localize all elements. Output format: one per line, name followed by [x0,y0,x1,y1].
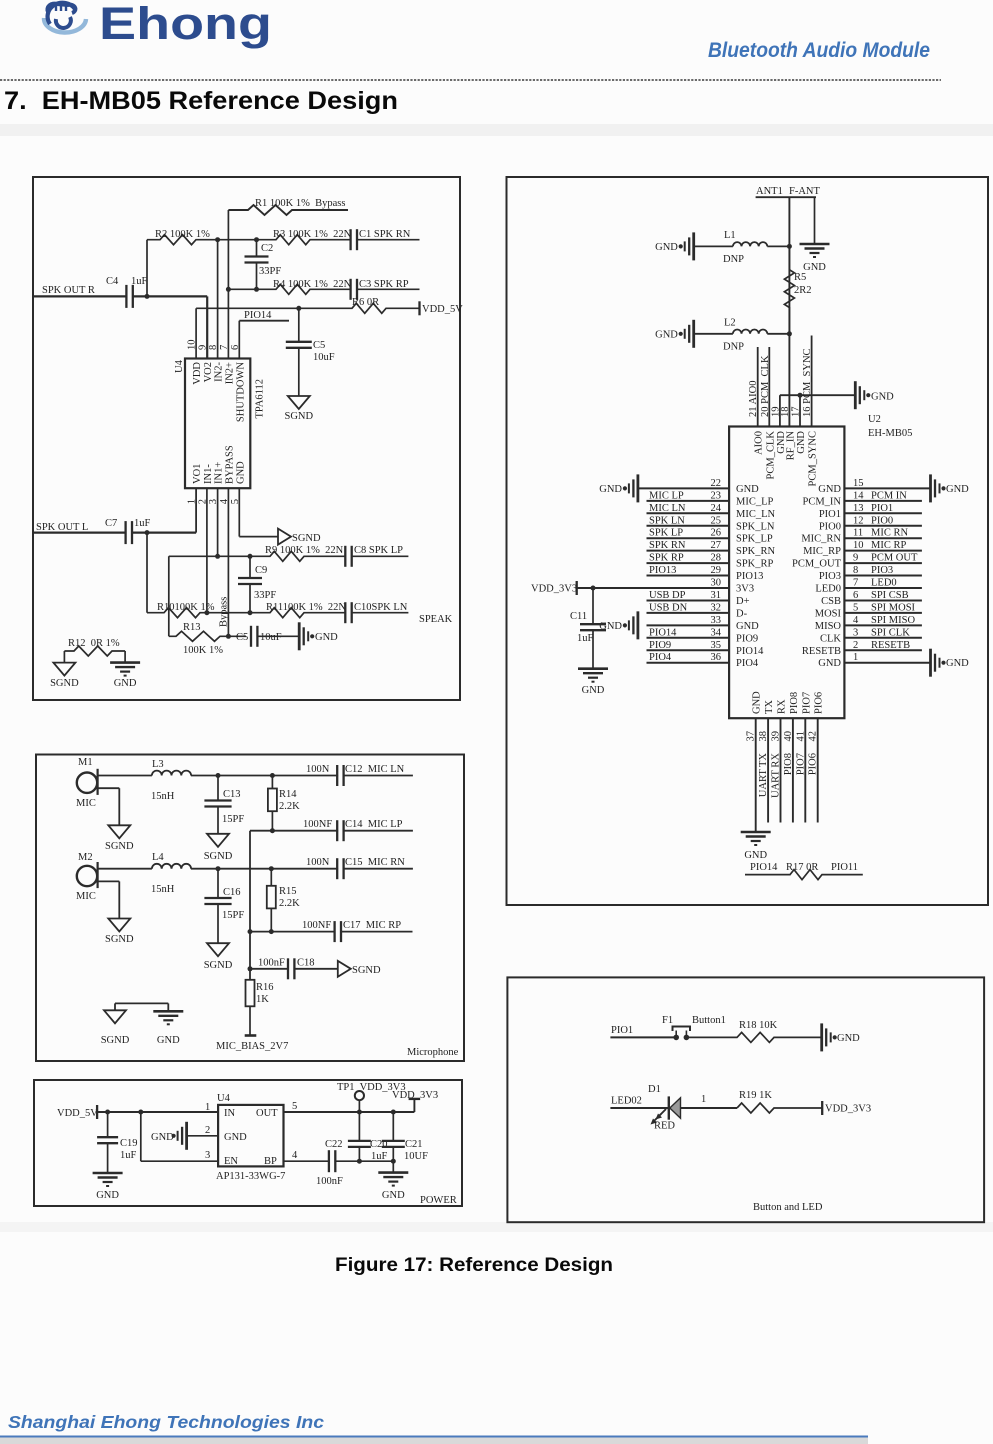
wire MIC_LP row [250,828,338,833]
ground SGND right of pin5 [278,529,321,545]
capacitor C17 MIC_RP [302,920,413,942]
svg-text:D+: D+ [736,596,750,607]
svg-text:M2: M2 [78,852,93,863]
svg-text:PIO4: PIO4 [649,652,672,663]
ground GND below C21 [378,1161,408,1201]
U2 left pin 25 net SPK LN [647,515,775,532]
svg-text:SPK_LN: SPK_LN [736,521,775,532]
svg-text:C14 MIC LP: C14 MIC LP [345,819,403,830]
svg-text:Button and LED: Button and LED [753,1202,823,1213]
svg-text:7. EH-MB05 Reference Design: 7. EH-MB05 Reference Design [4,87,398,115]
svg-text:GND: GND [96,1190,119,1201]
svg-text:100N: 100N [306,764,330,775]
wire IN2- pin8 vertical [215,237,220,358]
resistor R16 1K [246,980,274,1035]
svg-text:GND: GND [599,484,622,495]
svg-text:AIO0: AIO0 [754,431,765,455]
svg-text:C12 MIC LN: C12 MIC LN [345,764,405,775]
module schematic frame [507,177,989,905]
svg-text:ANT1: ANT1 [756,186,783,197]
svg-text:GND: GND [224,1132,247,1143]
svg-text:3: 3 [205,1150,210,1161]
svg-text:GND: GND [818,484,841,495]
ground GND bottom left [153,1011,183,1046]
wire SPK OUT L input [34,531,126,533]
Ehong logo icon [44,3,86,33]
svg-text:2.2K: 2.2K [279,801,300,812]
resistor R11 [207,602,347,618]
svg-text:PIO9: PIO9 [649,640,671,651]
svg-text:IN2-: IN2- [214,361,225,381]
svg-text:C16: C16 [223,887,241,898]
label POWER [420,1195,457,1206]
svg-text:U4: U4 [174,359,185,373]
resistor R12 [64,638,125,663]
wire LED02 to D1 [610,1107,668,1109]
svg-text:15nH: 15nH [151,884,175,895]
svg-text:LED0: LED0 [871,578,897,589]
svg-text:1uF: 1uF [577,633,594,644]
svg-text:Button1: Button1 [692,1015,726,1026]
svg-text:PIO13: PIO13 [649,565,676,576]
ground GND at U2 pin22 [599,474,638,502]
svg-text:1: 1 [701,1094,706,1105]
resistor R18 10K [686,1020,821,1042]
wire IN1- pin2 vertical [204,488,209,615]
svg-text:100NF: 100NF [302,920,331,931]
svg-text:9: 9 [853,553,858,564]
svg-text:GND: GND [736,621,759,632]
svg-text:L4: L4 [152,852,164,863]
power flag VDD_3V3 at pin30 [531,581,577,595]
svg-text:C9: C9 [255,565,267,576]
svg-text:OUT: OUT [256,1108,278,1119]
svg-text:PIO14: PIO14 [244,310,272,321]
U2 left pin 33 [647,615,760,632]
svg-text:SGND: SGND [105,841,134,852]
svg-text:DNP: DNP [723,342,744,353]
svg-text:3V3: 3V3 [736,584,754,595]
resistor R19 1K [737,1090,822,1113]
svg-text:U2: U2 [868,414,881,425]
wire D1 to R19 [681,1094,738,1108]
svg-text:PIO9: PIO9 [736,633,758,644]
U2 right pin 4 net SPI MISO [815,615,922,632]
svg-text:GND: GND [736,484,759,495]
svg-text:MIC: MIC [76,891,96,902]
svg-text:D-: D- [736,608,748,619]
U2 right pin 1 [818,652,930,669]
svg-text:GND: GND [157,1035,180,1046]
svg-text:GND: GND [382,1190,405,1201]
resistor R4 [228,279,351,294]
U2 right pin 2 net RESETB [802,640,922,657]
svg-text:GND: GND [151,1132,174,1143]
svg-text:SGND: SGND [204,851,233,862]
svg-text:C19: C19 [120,1138,138,1149]
inductor L1 [694,230,790,265]
Ehong logo text [99,0,272,49]
svg-text:Bluetooth Audio Module: Bluetooth Audio Module [708,38,930,62]
net stub PCM_CLK pin20 [760,347,771,427]
net stub PIO7 pin41 [795,718,806,822]
svg-text:5: 5 [292,1101,297,1112]
svg-text:13: 13 [853,503,864,514]
svg-text:R1 100K 1% Bypass: R1 100K 1% Bypass [255,198,345,209]
wire IN1+ pin3 vertical [215,488,220,559]
svg-text:RED: RED [654,1121,675,1132]
svg-text:MIC_LP: MIC_LP [736,496,774,507]
svg-text:R4 100K 1% 22N: R4 100K 1% 22N [273,279,352,290]
U2 left pin 36 net PIO4 [647,652,759,669]
label SPK OUT L [36,522,88,533]
svg-text:R16: R16 [256,982,274,993]
svg-text:PIO14: PIO14 [649,627,677,638]
svg-text:Microphone: Microphone [407,1047,459,1058]
svg-text:PIO1: PIO1 [819,509,841,520]
svg-text:6: 6 [853,590,858,601]
ground GND at U2 pin1 [931,649,970,677]
svg-text:IN1+: IN1+ [214,462,225,484]
capacitor C9 [238,554,276,615]
svg-text:GND: GND [582,685,605,696]
svg-text:GND: GND [871,392,894,403]
svg-text:34: 34 [711,627,722,638]
ground GND right of pin19 rail [855,381,894,409]
svg-text:BP: BP [264,1156,277,1167]
svg-text:CSB: CSB [821,596,841,607]
test point TP1 [337,1082,406,1112]
svg-text:7: 7 [853,578,858,589]
wire GND pin5 to SGND [239,488,278,536]
capacitor C13 15PF [204,776,244,834]
U2 left pin 34 net PIO14 [647,627,759,644]
svg-text:27: 27 [711,540,722,551]
svg-text:GND: GND [796,431,807,454]
resistor R5 2R2 [784,246,811,333]
svg-text:33PF: 33PF [259,266,281,277]
svg-text:USB DN: USB DN [649,602,688,613]
capacitor C14 MIC_LP [303,819,413,841]
svg-text:PIO0: PIO0 [871,515,893,526]
svg-text:1K: 1K [256,994,269,1005]
svg-text:2.2K: 2.2K [279,898,300,909]
U2 bottom pin numbers [746,731,819,742]
wire C3 to SPK RP [357,288,420,290]
svg-text:1uF: 1uF [131,276,148,287]
U2 left pin 24 net MIC LN [647,503,776,520]
wire M2 ground leg [98,881,120,918]
capacitor C22 100nF [316,1139,343,1187]
svg-text:MIC_LN: MIC_LN [736,509,776,520]
ground GND at pin2 [151,1122,187,1150]
LED D1 RED [648,1084,681,1132]
svg-text:PIO4: PIO4 [736,658,759,669]
header dashed rule [0,79,941,81]
regulator U4 AP131 body [216,1093,285,1182]
svg-text:100N: 100N [306,857,330,868]
wire pin2 GND [187,1125,219,1136]
svg-text:POWER: POWER [420,1195,457,1206]
capacitor C15 MIC_RN [306,857,413,879]
pin17 GND wire [791,393,803,427]
U2 left pin 32 net USB DN [647,602,748,619]
U4 pin numbers bottom [187,498,241,504]
svg-text:15: 15 [853,478,864,489]
ground GND left of L1 [655,232,694,260]
svg-text:100nF: 100nF [316,1176,343,1187]
svg-text:PCM OUT: PCM OUT [871,553,918,564]
capacitor C12 MIC_LN [306,764,413,786]
svg-text:VDD_3V3: VDD_3V3 [392,1090,438,1101]
svg-text:26: 26 [711,528,722,539]
svg-text:IN: IN [224,1108,235,1119]
svg-text:TPA6112: TPA6112 [255,379,266,418]
wire SGND-GND tie [115,1003,168,1011]
wire BP pin4 through C22 [284,1150,329,1161]
wire L4 to C15 row [191,866,338,871]
capacitor C16 15PF [204,869,244,944]
svg-text:VDD: VDD [192,362,203,385]
U2 left pin 30 [577,578,754,595]
svg-text:MIC RP: MIC RP [871,540,906,551]
svg-text:SHUTDOWN: SHUTDOWN [235,362,246,422]
button schematic frame [507,977,984,1222]
wire antenna down to RF_IN [787,197,792,426]
svg-text:PIO1: PIO1 [611,1025,633,1036]
capacitor C20 1uF [348,1112,388,1162]
svg-text:PIO3: PIO3 [871,565,893,576]
wire R9 branch down to R13 [168,556,170,636]
wire C8 to SPK LP [352,555,409,557]
ground GND below U2 [741,832,771,861]
svg-text:R10100K 1%: R10100K 1% [157,602,215,613]
svg-text:C1 SPK RN: C1 SPK RN [359,229,411,240]
svg-text:PIO1: PIO1 [871,503,893,514]
svg-text:SGND: SGND [285,411,314,422]
resistor R6 [348,297,420,313]
footer company name [8,1412,324,1432]
label Microphone [407,1047,459,1058]
svg-text:PIO8: PIO8 [783,753,794,775]
svg-text:R19 1K: R19 1K [739,1090,772,1101]
U4 pin numbers top [187,340,241,351]
svg-text:VO2: VO2 [203,362,214,382]
U2 right pin 12 net PIO0 [819,515,922,532]
svg-text:10UF: 10UF [404,1151,428,1162]
svg-text:SPI CLK: SPI CLK [871,627,910,638]
svg-text:SGND: SGND [105,934,134,945]
pushbutton F1 Button1 [662,1015,726,1040]
capacitor C11 [570,586,606,669]
svg-text:SPK LP: SPK LP [649,528,683,539]
svg-text:C11: C11 [570,611,587,622]
svg-text:MISO: MISO [815,621,842,632]
svg-text:SPK_RN: SPK_RN [736,546,776,557]
resistor R3 [218,229,352,245]
net stub PCM_SYNC pin16 [802,336,813,427]
net PIO1 [611,1025,633,1036]
svg-text:R12 0R 1%: R12 0R 1% [68,638,120,649]
svg-text:R3 100K 1% 22N: R3 100K 1% 22N [273,229,352,240]
svg-text:SGND: SGND [204,960,233,971]
svg-text:20 PCM_CLK: 20 PCM_CLK [760,355,771,417]
svg-text:USB DP: USB DP [649,590,686,601]
power flag VDD_5V input [57,1105,98,1119]
svg-text:EH-MB05: EH-MB05 [868,428,912,439]
svg-text:SPK RN: SPK RN [649,540,686,551]
label Button and LED [753,1202,823,1213]
wire EN tie to input [141,1112,218,1161]
net stub UART_TX pin38 [758,718,769,822]
svg-text:1: 1 [205,1102,210,1113]
pin18 number [780,407,791,418]
amplifier schematic frame [33,177,460,700]
svg-text:GND: GND [114,678,137,689]
svg-text:GND: GND [752,691,763,714]
svg-text:PCM_IN: PCM_IN [802,496,841,507]
net stub PIO8 pin40 [783,718,794,822]
net LED02 [611,1096,642,1107]
svg-text:Figure 17: Reference Design: Figure 17: Reference Design [335,1255,613,1276]
svg-text:R6 0R: R6 0R [352,297,379,308]
svg-text:8: 8 [853,565,858,576]
svg-text:PCM IN: PCM IN [871,490,907,501]
net stub AIO0 pin21 [748,347,759,427]
svg-text:33: 33 [711,615,722,626]
svg-text:10uF: 10uF [260,632,282,643]
ground GND right of C6 [299,622,338,650]
mic bias bus vertical [248,831,253,980]
svg-text:GND: GND [744,850,767,861]
capacitor C6 10uF [236,626,282,647]
wire M1 signal [98,775,152,777]
svg-text:1: 1 [853,652,858,663]
svg-text:PIO14: PIO14 [750,862,778,873]
ground GND at U2 pin15 [931,474,970,502]
resistor R10 [147,602,215,618]
antenna ANT1 F-ANT [756,186,821,197]
svg-text:VDD_3V3: VDD_3V3 [825,1104,871,1115]
svg-text:5: 5 [853,602,858,613]
svg-text:Ehong: Ehong [99,0,272,49]
svg-text:SPK LN: SPK LN [649,515,685,526]
svg-text:GND: GND [946,484,969,495]
svg-text:33PF: 33PF [254,590,276,601]
wire L3 to C12 row [191,773,338,778]
svg-text:100NF: 100NF [303,819,332,830]
svg-text:PCM_SYNC: PCM_SYNC [808,431,819,486]
U2 left pin 23 net MIC LP [647,490,774,507]
power schematic frame [34,1080,462,1206]
microphone schematic frame [36,755,464,1062]
svg-text:MIC RN: MIC RN [871,528,908,539]
svg-text:C2: C2 [261,243,273,254]
U2 right pin 9 net PCM OUT [792,553,922,570]
capacitor C19 1uF [97,1112,137,1173]
ground GND left of L2 [655,320,694,348]
resistor R15 2.2K [267,869,300,932]
svg-text:24: 24 [711,503,722,514]
wire SPK OUT R input [34,295,126,297]
header right text Bluetooth Audio Module [708,38,930,62]
ground SGND below R12 [50,663,79,689]
wire VDD rail [196,306,348,359]
U2 right pin 10 net MIC RP [803,540,922,557]
ground GND below C19 [93,1173,123,1201]
svg-text:2: 2 [205,1125,210,1136]
svg-text:MIC_BIAS_2V7: MIC_BIAS_2V7 [216,1041,288,1052]
ground GND below C11 [578,669,608,696]
svg-text:U4: U4 [217,1093,231,1104]
svg-text:RESETB: RESETB [871,640,910,651]
svg-text:UART RX: UART RX [771,753,782,798]
svg-text:GND: GND [315,632,338,643]
svg-text:2R2: 2R2 [794,285,812,296]
ground SGND bottom left [101,1010,130,1046]
svg-text:Bypass: Bypass [219,597,230,627]
svg-text:PIO7: PIO7 [795,753,806,775]
svg-text:SPK_LP: SPK_LP [736,534,773,545]
svg-text:CLK: CLK [820,633,841,644]
resistor R13 [169,622,246,656]
svg-text:SPK RP: SPK RP [649,553,684,564]
svg-text:10: 10 [853,540,864,551]
svg-text:C7: C7 [105,518,117,529]
label SPEAK [419,614,453,625]
svg-text:4: 4 [292,1150,298,1161]
ground GND at U2 pin33 [599,611,638,639]
U2 left pin 22 [638,478,759,495]
inductor L2 [694,318,790,353]
U2 left pin 27 net SPK RN [647,540,776,557]
svg-text:1uF: 1uF [134,518,151,529]
wire U2 pin37 GND [755,718,757,832]
svg-text:SPK_RP: SPK_RP [736,559,774,570]
svg-text:PIO6: PIO6 [814,692,825,714]
resistor R9 [169,545,345,561]
wire C6 to GND [257,635,299,637]
svg-text:31: 31 [711,590,722,601]
svg-text:GND: GND [837,1033,860,1044]
U4 pin labels bottom [192,445,246,484]
wire C1 to SPK RN [357,239,420,241]
svg-text:F1: F1 [662,1015,673,1026]
svg-text:100K 1%: 100K 1% [183,645,223,656]
ground SGND below C13 [204,834,233,862]
pin19 GND wire [770,395,855,426]
svg-text:C21: C21 [405,1139,423,1150]
wire C22 to GND node [336,1159,396,1164]
svg-text:PIO6: PIO6 [808,753,819,775]
svg-text:R18 10K: R18 10K [739,1020,778,1031]
microphone M1 [76,757,98,809]
svg-text:GND: GND [818,658,841,669]
svg-text:R9 100K 1% 22N: R9 100K 1% 22N [265,545,344,556]
svg-text:PIO13: PIO13 [736,571,763,582]
svg-text:M1: M1 [78,757,93,768]
svg-text:Shanghai Ehong Technologies In: Shanghai Ehong Technologies Inc [8,1412,324,1432]
svg-text:100nF: 100nF [258,958,285,969]
svg-text:SPI MISO: SPI MISO [871,615,915,626]
wire IN2+ pin7 vertical [226,210,231,359]
svg-text:15nH: 15nH [151,791,175,802]
svg-text:23: 23 [711,490,722,501]
svg-text:LED0: LED0 [815,584,841,595]
svg-text:PIO7: PIO7 [801,692,812,714]
capacitor C2 [245,237,282,292]
svg-text:TX: TX [764,700,775,714]
